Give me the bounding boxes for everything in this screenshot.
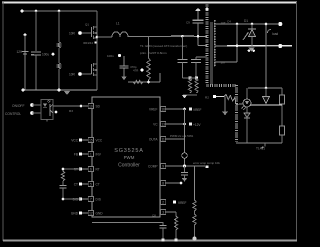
node V+ rail end — [20, 9, 23, 12]
battery B1 plus marks — [31, 51, 34, 53]
node V+ C2 — [58, 10, 61, 13]
wire fb bright mid — [250, 104, 282, 106]
terminal control dot — [30, 111, 34, 115]
node R6 top — [188, 76, 191, 79]
svg-text:7: 7 — [90, 198, 92, 202]
node RT top — [62, 168, 65, 171]
svg-text:PWM 2x out 50%: PWM 2x out 50% — [170, 134, 194, 138]
indicator circle — [182, 153, 188, 159]
svg-text:prim. 2x20T 0.8mm: prim. 2x20T 0.8mm — [140, 51, 167, 55]
node battery plus marker — [24, 33, 27, 36]
svg-text:Controller: Controller — [118, 163, 140, 169]
svg-text:OUTA: OUTA — [149, 138, 158, 142]
ic U1 box — [92, 97, 160, 217]
transistor Q2 channel — [93, 63, 95, 66]
wire feedback tap — [265, 24, 267, 88]
diode D2 below rail — [248, 47, 254, 51]
transistor Q2 drain stub — [94, 63, 98, 65]
wire opto gnd stub — [224, 97, 226, 112]
svg-text:load: load — [272, 32, 278, 36]
svg-text:CT: CT — [74, 183, 78, 187]
capacitor C9 plate bottom — [193, 22, 204, 24]
transistor Q2 vertical — [96, 63, 98, 75]
wire C5 top — [195, 57, 197, 59]
ic U1 pin 7 discharge — [82, 198, 92, 200]
inductor L1 — [112, 32, 128, 37]
ic U1 pin 9 comp — [160, 165, 165, 167]
svg-text:R2: R2 — [205, 96, 209, 100]
net flag comp — [206, 166, 209, 169]
wire opto output — [53, 105, 87, 107]
transformer T1 core line 2 — [211, 22, 213, 85]
battery B1 plate long — [22, 51, 29, 53]
diode D1 anode wire — [251, 37, 253, 46]
wire fb top — [248, 87, 282, 89]
node shield dot — [206, 8, 209, 11]
capacitor C1 plate top — [31, 51, 41, 53]
capacitor C7 plates — [181, 172, 188, 174]
capacitor C8 — [162, 222, 164, 226]
wire Q2 source — [96, 75, 98, 90]
node Q1 gate — [78, 31, 82, 35]
svg-text:VCC: VCC — [96, 139, 103, 143]
wire C5 bottom — [195, 63, 197, 78]
node R7 top — [195, 76, 198, 79]
capacitor C3 lower — [57, 63, 60, 69]
wire snubber bottom — [183, 94, 197, 96]
transformer T1 core line 1 — [209, 22, 211, 85]
wire battery body — [24, 35, 26, 90]
terminal on-off dot — [30, 103, 34, 107]
optocoupler U2 transistor — [49, 104, 51, 116]
wire divider link — [194, 211, 196, 214]
wire C10 bottom — [123, 68, 125, 76]
wire fb left upper — [246, 88, 248, 99]
capacitor CT plate bottom — [60, 187, 67, 189]
wire bright segment 2 — [183, 35, 194, 37]
resistor R6 — [188, 78, 191, 93]
wire Q1 gate — [80, 32, 92, 34]
wire secondary bottom — [215, 61, 237, 63]
wire Q2 gate — [80, 73, 92, 75]
wire midpoint to L1 — [97, 36, 112, 38]
svg-text:9: 9 — [162, 165, 164, 169]
resistor R12 slanted — [224, 95, 236, 105]
svg-text:+12V: +12V — [193, 123, 201, 127]
wire C9 lower — [197, 23, 199, 46]
node CT bottom — [62, 198, 65, 201]
ground symbol C10 — [121, 77, 127, 81]
wire C1 top — [35, 11, 37, 51]
wire to primary — [194, 35, 207, 37]
wire under ic — [92, 222, 163, 224]
transformer T1 secondary winding — [214, 20, 216, 22]
node Q2 gate — [78, 72, 82, 76]
ic U1 pin 12 ground — [82, 212, 92, 214]
wire comp run — [165, 165, 205, 167]
wire output plus — [264, 23, 279, 25]
resistor RT — [61, 171, 64, 181]
net flag +12v — [189, 123, 192, 126]
wire C7 stub bottom — [184, 175, 186, 178]
node D2 left — [248, 49, 251, 52]
resistor R5 top lead — [148, 37, 150, 59]
svg-text:10R: 10R — [69, 73, 76, 77]
wire mid rail dim — [215, 45, 227, 47]
wire fb left lower — [246, 118, 248, 143]
wire C10 top — [123, 56, 125, 66]
node mid link — [147, 81, 150, 84]
node opto emitter — [55, 111, 58, 114]
node ground C2 — [58, 89, 61, 92]
ic U1 pin 6 rt — [82, 168, 92, 170]
node R12 terminal — [213, 95, 216, 98]
wire L1 out — [128, 36, 171, 38]
capacitor C2 upper — [57, 42, 60, 48]
node midpoint — [96, 36, 99, 39]
border frame left — [2, 2, 4, 241]
svg-text:IRFZ44: IRFZ44 — [83, 41, 93, 45]
wire C3 bottom — [58, 69, 60, 90]
node sec top D1 — [251, 23, 254, 26]
transistor Q1 drain stub — [94, 26, 98, 28]
svg-text:13: 13 — [161, 123, 165, 127]
svg-text:R3: R3 — [69, 109, 73, 113]
resistor R17 small — [133, 80, 143, 83]
wire R12 out — [236, 103, 243, 106]
svg-text:CT: CT — [96, 183, 100, 187]
svg-text:FB: FB — [74, 153, 78, 157]
wire fb bottom — [236, 142, 282, 144]
wire pin13 out — [165, 123, 185, 125]
wire feedback drop hatched — [235, 85, 238, 87]
wire TL431 ref stub — [264, 143, 266, 147]
svg-text:100n: 100n — [107, 54, 114, 58]
capacitor C4 plate top — [177, 58, 187, 60]
transistor Q1 channel — [93, 26, 95, 29]
arrow marker — [243, 33, 248, 40]
node comp branch — [183, 165, 186, 168]
capacitor C5 plate bottom — [191, 61, 201, 63]
ground symbol primary — [64, 91, 70, 95]
ic U1 pin 11 outa — [160, 138, 165, 140]
ic U1 pin 2 noninv — [160, 201, 165, 203]
wire mid link — [128, 81, 160, 83]
wire on-off — [32, 104, 41, 106]
ground arrow snubber — [182, 95, 187, 98]
wire divider bottom — [194, 225, 196, 237]
svg-text:VREF: VREF — [149, 108, 158, 112]
node R5 label dot — [140, 68, 143, 71]
capacitor C1 plate bottom — [31, 54, 41, 56]
wire CT to pin 5 — [62, 188, 64, 199]
svg-text:GND: GND — [96, 212, 104, 216]
ground blob divider — [193, 237, 197, 241]
svg-text:C4: C4 — [227, 20, 231, 24]
transistor Q2 gate bar — [91, 64, 93, 74]
ic U1 pin 13 vc — [160, 123, 165, 125]
svg-text:GND: GND — [71, 212, 79, 216]
svg-text:DIS: DIS — [96, 198, 101, 202]
node C8 ground — [161, 238, 164, 241]
svg-text:SD: SD — [96, 105, 101, 109]
border frame right — [296, 2, 298, 241]
wire C6 vertical — [236, 24, 238, 62]
node opto out — [80, 105, 83, 108]
capacitor C9 top dome — [196, 9, 201, 11]
ground symbol C7 — [182, 178, 188, 182]
svg-text:100u: 100u — [42, 53, 49, 57]
node C4 tap — [181, 35, 184, 38]
wire Q1 drain — [96, 11, 98, 26]
ic U1 pin 16 vref — [160, 108, 165, 110]
wire RT left — [63, 168, 81, 170]
wire circle down — [184, 158, 186, 166]
svg-text:ON/OFF: ON/OFF — [12, 104, 24, 108]
diode D1 cathode bar — [248, 28, 256, 30]
resistor R5 — [147, 58, 151, 80]
svg-text:1: 1 — [90, 153, 92, 157]
capacitor C9 plate top — [193, 19, 204, 21]
wire pin3 out — [165, 211, 176, 213]
svg-text:PWM: PWM — [124, 155, 135, 160]
resistor R15 — [193, 214, 196, 225]
wire TL431 cathode — [265, 88, 267, 97]
resistor R10 box — [280, 95, 285, 104]
wire primary bottom exit — [206, 84, 208, 87]
diode D5 — [244, 113, 250, 118]
border frame top — [2, 2, 297, 4]
wire C9 upper — [197, 11, 199, 20]
svg-text:2: 2 — [162, 201, 164, 205]
svg-text:VREF: VREF — [193, 108, 202, 112]
svg-text:L1: L1 — [116, 22, 120, 26]
svg-text:8: 8 — [162, 182, 164, 186]
node C1 label dot — [52, 53, 55, 56]
node pin8 — [180, 182, 183, 185]
capacitor C4 plate bottom — [177, 61, 187, 63]
svg-text:VC: VC — [153, 123, 158, 127]
svg-text:VCC: VCC — [71, 139, 78, 143]
svg-text:T1: EI33 (reused ATX transform: T1: EI33 (reused ATX transformer) — [140, 44, 187, 48]
ic U1 pin 10 shutdown — [82, 105, 92, 107]
svg-text:6: 6 — [90, 168, 92, 172]
resistor R7 — [195, 78, 198, 93]
capacitor C10 plate top — [120, 65, 129, 67]
ground symbol opto branch — [222, 112, 228, 116]
svg-text:RT: RT — [96, 168, 100, 172]
wire pin8 out — [165, 182, 181, 184]
wire C7 stub top — [184, 166, 186, 173]
svg-text:12V: 12V — [17, 50, 24, 54]
capacitor CT plate top — [60, 184, 67, 186]
node mid rail C6 — [236, 44, 239, 47]
node R16 ground — [174, 238, 177, 241]
node ground battery — [21, 88, 24, 91]
shunt regulator U3 TL431 — [262, 97, 269, 104]
resistor R14 — [193, 200, 196, 211]
wire half-bridge mid — [96, 38, 98, 63]
svg-text:3: 3 — [162, 211, 164, 215]
optocoupler U2 led — [43, 104, 47, 108]
svg-text:12: 12 — [89, 212, 93, 216]
ic U1 pin 1 inv — [82, 153, 92, 155]
node pin2 net — [173, 200, 176, 203]
resistor R16 — [175, 212, 177, 216]
terminal output minus — [278, 44, 282, 48]
terminal output plus — [278, 22, 282, 26]
svg-text:INV: INV — [96, 153, 102, 157]
wire snubber link — [182, 77, 196, 79]
wire comp divider — [194, 166, 196, 200]
wire RT-CT link — [62, 181, 64, 185]
svg-text:D1: D1 — [244, 19, 248, 23]
transistor Q1 body arrow — [94, 32, 97, 35]
svg-text:5: 5 — [90, 183, 92, 187]
svg-text:11: 11 — [161, 138, 165, 142]
node pin16 — [183, 108, 186, 111]
ic U1 pin 5 ct — [82, 183, 92, 185]
optocoupler U2 box — [41, 100, 53, 120]
wire fb right mid — [281, 104, 283, 126]
svg-text:SG3525A: SG3525A — [114, 148, 143, 154]
svg-text:VREF: VREF — [178, 201, 187, 205]
node Q1 label dot — [94, 41, 96, 43]
capacitor C5 plate top — [191, 58, 201, 60]
svg-text:15: 15 — [89, 139, 93, 143]
wire output minus — [266, 45, 279, 47]
wire secondary top — [215, 23, 279, 25]
wire C2 mid — [58, 48, 60, 63]
transistor Q1 vertical — [96, 26, 98, 38]
svg-text:10R: 10R — [69, 32, 76, 36]
net flag vref — [189, 108, 192, 111]
wire opto down — [46, 120, 48, 122]
battery B1 plate short — [23, 53, 27, 55]
node feedback tap — [265, 23, 268, 26]
wire pin11 out — [165, 138, 185, 140]
wire R5 bottom — [148, 80, 150, 82]
transformer T1 primary winding — [206, 4, 209, 6]
wire center tap stub — [198, 45, 207, 47]
wire top V+ rail — [22, 10, 97, 12]
wire ground rail — [23, 89, 97, 91]
capacitor C10 plate bottom — [120, 67, 129, 69]
svg-text:C9: C9 — [186, 21, 190, 25]
wire right link vertical — [184, 109, 186, 153]
wire mid link stub up — [159, 73, 161, 82]
load bracket — [268, 30, 272, 34]
wire fb right lower — [281, 135, 283, 143]
wire C1 bottom — [35, 55, 37, 90]
svg-text:16: 16 — [161, 108, 165, 112]
wire pin16 out — [165, 108, 185, 110]
ic U1 pin 8 softstart — [160, 182, 165, 184]
ic U1 pin 15 vcc — [82, 139, 92, 141]
svg-text:TL431: TL431 — [256, 147, 265, 151]
transistor Q2 body arrow — [94, 69, 97, 72]
svg-text:Q1: Q1 — [85, 23, 89, 27]
optocoupler U4 LED circle — [243, 99, 251, 107]
node fb top mid — [265, 87, 268, 90]
transformer T1 secondary wire — [214, 21, 216, 67]
node D2 right — [252, 49, 255, 52]
border frame bottom ground rail — [3, 239, 297, 241]
svg-text:COMP: COMP — [148, 165, 158, 169]
net label C10 dot — [118, 54, 121, 57]
node pin13 — [183, 123, 186, 126]
node sec top junction — [236, 23, 239, 26]
wire C4 top — [181, 36, 183, 59]
diode D1 triangle — [248, 30, 255, 37]
wire primary bottom stub — [196, 56, 207, 58]
transistor Q1 gate bar — [91, 27, 93, 37]
resistor R11 box — [280, 126, 285, 135]
svg-text:47R: 47R — [133, 69, 138, 73]
wire C2 top — [58, 11, 60, 42]
svg-text:CONTROL: CONTROL — [5, 112, 21, 116]
wire control — [32, 112, 41, 114]
transistor Q2 source stub — [94, 74, 98, 76]
transistor Q1 source stub — [94, 37, 98, 39]
wire mid rail bright — [227, 45, 292, 47]
wire TL431 anode — [265, 104, 267, 105]
wire C4 bottom — [181, 63, 183, 78]
diode D1 cathode wire — [251, 24, 253, 29]
svg-text:error amp comp 10k: error amp comp 10k — [193, 161, 220, 165]
wire fb right upper — [281, 88, 283, 95]
node V+ C1 — [35, 10, 38, 13]
wire bright segment 1 — [171, 35, 182, 37]
node C9 cross — [197, 35, 200, 38]
svg-text:10: 10 — [89, 105, 93, 109]
wire R12 lead bright — [216, 96, 224, 98]
wire fb left mid — [246, 107, 248, 113]
ic U1 pin 3 sync — [160, 211, 165, 213]
svg-text:C8: C8 — [152, 214, 156, 218]
